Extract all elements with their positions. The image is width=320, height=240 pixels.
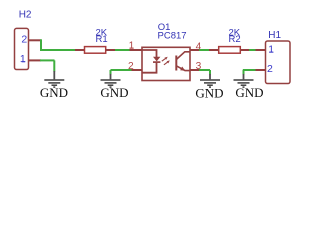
resistor R2 right lead [241, 49, 250, 51]
svg-text:GND: GND [40, 85, 68, 100]
connector H1 pin 2 stub [256, 69, 266, 71]
svg-text:2: 2 [21, 34, 27, 46]
wire opto pin3 to GND3 [199, 69, 210, 71]
svg-text:H2: H2 [19, 10, 32, 21]
svg-text:1: 1 [20, 53, 26, 65]
optocoupler phototransistor emitter arrowhead [180, 67, 185, 71]
optocoupler phototransistor emitter line [176, 66, 189, 71]
wire H2 pin2 jog down to top net [40, 39, 42, 50]
wire H1 pin2 run left [243, 69, 256, 71]
resistor R2 body [219, 47, 241, 54]
wire H2 pin1 run right [40, 59, 55, 61]
ground GND3 [209, 74, 211, 79]
optocoupler internal cathode wire [142, 62, 157, 73]
connector H2 pin 1 stub [29, 59, 42, 61]
svg-text:H1: H1 [268, 30, 281, 41]
ground GND4 [243, 74, 245, 79]
wire opto pin2 to GND2 [111, 69, 132, 71]
optocoupler O1 pin 2 stub [132, 69, 143, 71]
optocoupler phototransistor base bar [175, 56, 177, 71]
resistor R1 body [85, 47, 106, 54]
connector H1 pin 1 stub [256, 49, 266, 51]
svg-text:GND: GND [235, 85, 263, 100]
optocoupler LED triangle [153, 57, 160, 62]
wire top net left run to R1 [40, 49, 76, 51]
wire H2 pin1 drop to GND1 [53, 60, 55, 71]
resistor R1 right lead [106, 49, 116, 51]
optocoupler light arrow lower [164, 60, 170, 64]
wire opto pin2 drop [110, 70, 112, 75]
svg-text:GND: GND [100, 85, 128, 100]
optocoupler phototransistor collector line [176, 52, 189, 60]
wire H1 pin2 drop to GND4 [243, 70, 245, 75]
connector H2 pin 2 stub [29, 39, 42, 41]
optocoupler LED cathode bar [153, 61, 160, 63]
svg-text:GND: GND [195, 86, 223, 101]
connector H1 body [266, 41, 291, 84]
svg-text:R2: R2 [229, 34, 241, 45]
svg-text:PC817: PC817 [158, 30, 187, 41]
svg-text:R1: R1 [96, 34, 108, 45]
optocoupler O1 pin 4 stub [190, 49, 200, 51]
wire opto pin3 drop [209, 70, 211, 75]
resistor R2 left lead [209, 49, 219, 51]
optocoupler internal anode wire [142, 50, 157, 57]
optocoupler light arrow upper [162, 57, 168, 61]
svg-text:2: 2 [267, 63, 273, 75]
wire opto pin4 to R2 [199, 49, 209, 51]
wire R2 to H1 pin1 [249, 49, 256, 51]
wire R1 to opto pin1 [115, 49, 130, 51]
resistor R1 left lead [75, 49, 85, 51]
ground GND2 [110, 74, 112, 79]
ground GND1 [53, 71, 55, 79]
optocoupler O1 pin 1 stub [130, 49, 143, 51]
optocoupler O1 body [142, 47, 190, 80]
optocoupler O1 pin 3 stub [190, 69, 200, 71]
svg-text:1: 1 [268, 44, 274, 56]
connector H2 body [15, 28, 29, 69]
